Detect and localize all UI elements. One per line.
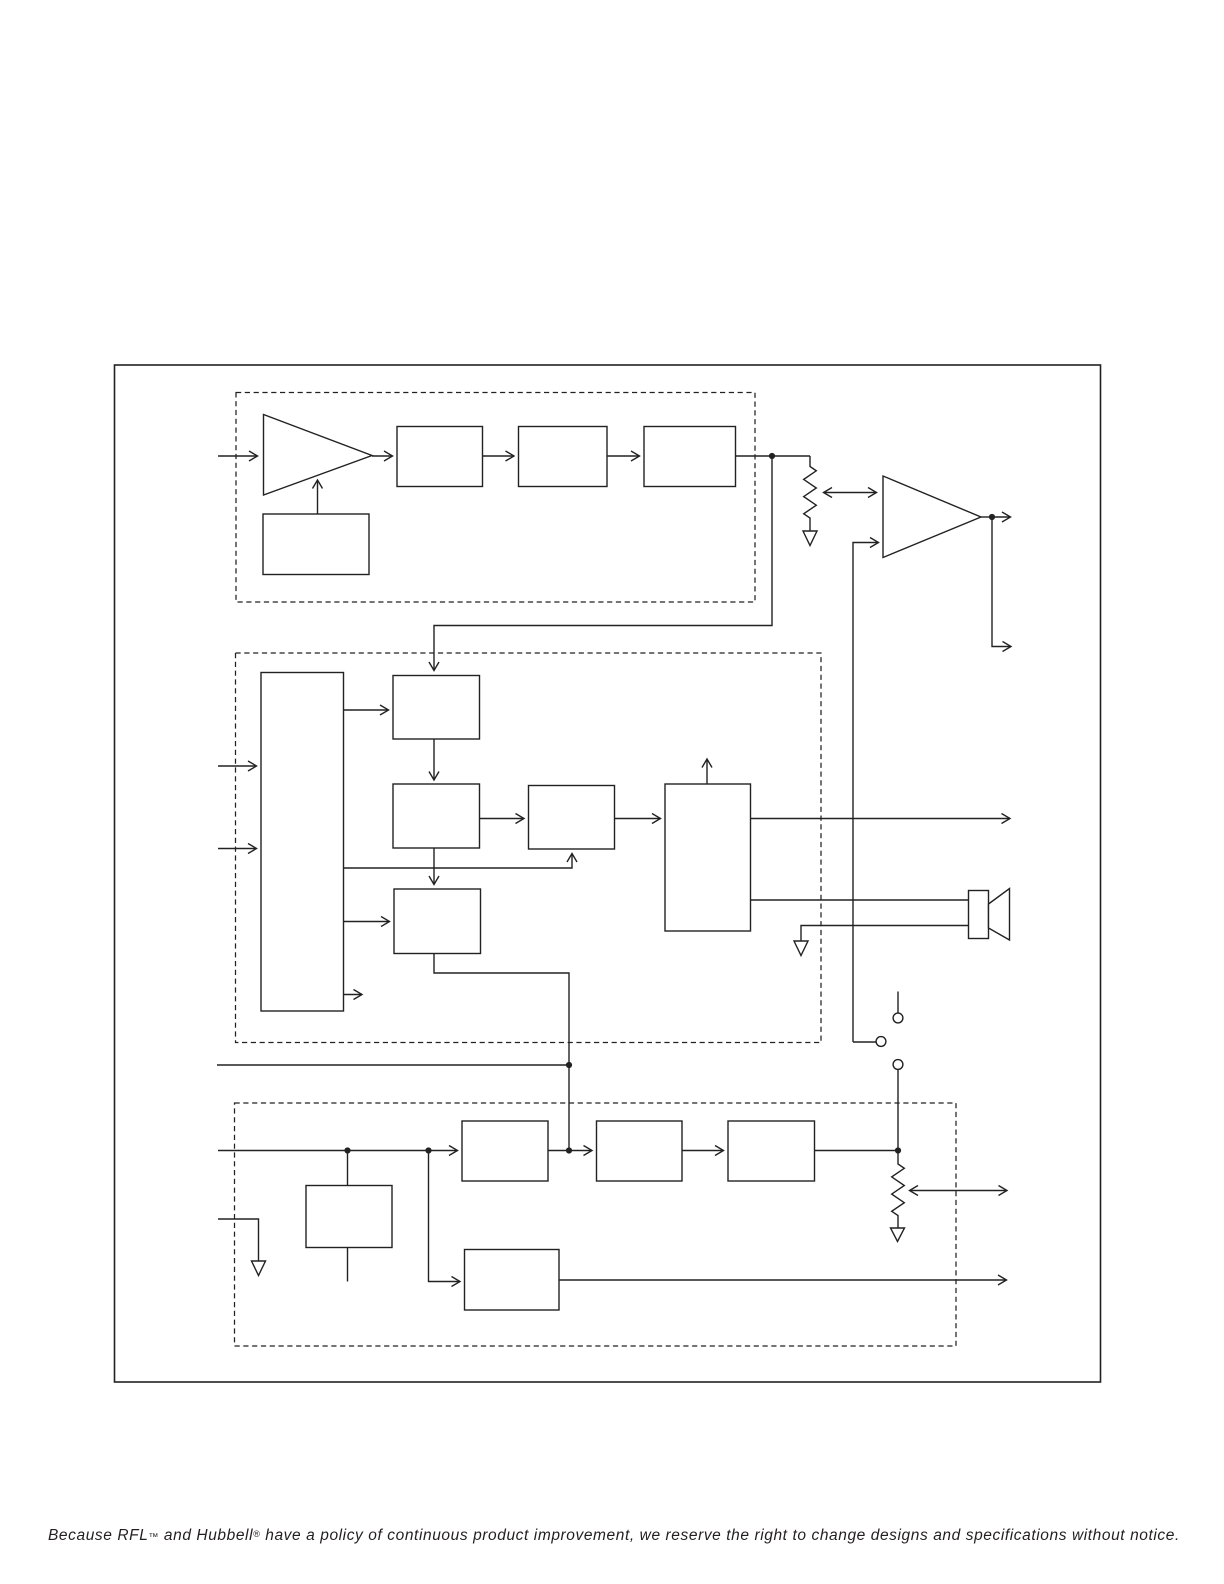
block A1 [397, 427, 483, 487]
node N1 [769, 453, 775, 459]
block B2 [393, 784, 480, 848]
wire B3 to B4 [615, 818, 661, 820]
wire C3 to node N4 [815, 1150, 899, 1152]
switch SW1 contact left wire [853, 1041, 876, 1043]
ground G1 (hollow arrow) [803, 531, 817, 546]
block A3 [644, 427, 736, 487]
wire B0 to B3 bottom (up arrow) [344, 854, 573, 869]
ground G4 (hollow arrow) [891, 1228, 905, 1242]
wire B4 output right (long arrow) [751, 818, 1011, 820]
wire U2 apex to node N2 [981, 516, 992, 518]
wire node N1 down and left to block B1 [434, 456, 772, 671]
resistor R1 [804, 456, 817, 531]
op-amp U1 [264, 415, 373, 496]
wire stub arrow from B0 bottom [344, 994, 363, 996]
node N4b on C1-C2 wire [566, 1147, 572, 1153]
dashed enclosure bottom (logic section) [235, 1103, 957, 1346]
node N5 [344, 1147, 350, 1153]
wire B4 to speaker top lead [751, 899, 969, 901]
wire output arrow lower from N2 [992, 517, 1011, 647]
block C3 [728, 1121, 815, 1181]
wire C2 to C3 [682, 1150, 724, 1152]
wire B0 to B1 [344, 709, 389, 711]
block A4 (oscillator under U1) [263, 514, 369, 575]
bidirectional arrow W2 (R2 to right) [910, 1190, 1008, 1192]
ground G3 (hollow arrow) [252, 1261, 266, 1276]
block B4 (output stage tall) [665, 784, 751, 931]
wire B1 down to B2 [433, 739, 435, 780]
speaker LS1 [969, 891, 989, 939]
wire B5 bottom to node N3 and down [434, 954, 569, 1151]
block B5 [394, 889, 481, 954]
wire input 2 to B0 [218, 848, 257, 850]
op-amp U2 [883, 476, 981, 558]
node N4 [895, 1147, 901, 1153]
wire A3 output to node N1 [736, 455, 811, 457]
wire switch riser to U2 input [853, 543, 879, 1043]
block B1 [393, 676, 480, 740]
wire switch bottom to node N4 [897, 1070, 899, 1151]
block A2 [519, 427, 608, 487]
wire up arrow from B4 top [706, 759, 708, 784]
wire A1 to A2 [483, 455, 515, 457]
block C2 [597, 1121, 683, 1181]
wire input to U1 [218, 455, 258, 457]
wire input row to C1 [218, 1150, 458, 1152]
wire input 1 to B0 [218, 765, 257, 767]
block C0 [306, 1186, 392, 1248]
wire node N6 down to C4 [429, 1151, 461, 1282]
wire C1 to C2 [548, 1150, 592, 1152]
node N2 [989, 514, 995, 520]
wire node N5 down to C0 [347, 1151, 349, 1186]
wire A4 to U1 [317, 480, 319, 514]
wire stub below C0 [347, 1248, 349, 1282]
outer border frame [115, 365, 1101, 1382]
wire A2 to A3 [607, 455, 640, 457]
switch SW1 contact left [876, 1037, 886, 1047]
ground G2 (hollow arrow) [794, 941, 808, 956]
wire B0 to B5 [344, 921, 390, 923]
node N6 [425, 1147, 431, 1153]
wire C4 output right (long arrow) [559, 1279, 1007, 1281]
wire speaker bottom lead to ground [801, 926, 969, 941]
dashed enclosure top (transmitter section) [236, 393, 755, 603]
switch SW1 contact top [893, 1013, 903, 1023]
wire output arrow right from N2 [992, 516, 1011, 518]
wire left stub to ground G3 [218, 1219, 259, 1261]
dashed enclosure middle (receiver section) [236, 653, 822, 1043]
bidirectional arrow W1 (R1 to U2) [824, 492, 877, 494]
wire B2 to B3 [480, 818, 525, 820]
footer disclaimer text [48, 1527, 1180, 1545]
node N3 [566, 1062, 572, 1068]
wire B2 down to B5 [433, 848, 435, 885]
switch SW1 lever stub [897, 992, 899, 1014]
switch SW1 contact bottom [893, 1060, 903, 1070]
block B3 [529, 786, 615, 850]
wire long input to node N3 [217, 1064, 569, 1066]
block C4 [465, 1250, 560, 1311]
resistor R2 [892, 1151, 905, 1228]
block B0 (tall input block) [261, 673, 344, 1012]
wire U1 to block A1 [372, 455, 393, 457]
block C1 [462, 1121, 548, 1181]
